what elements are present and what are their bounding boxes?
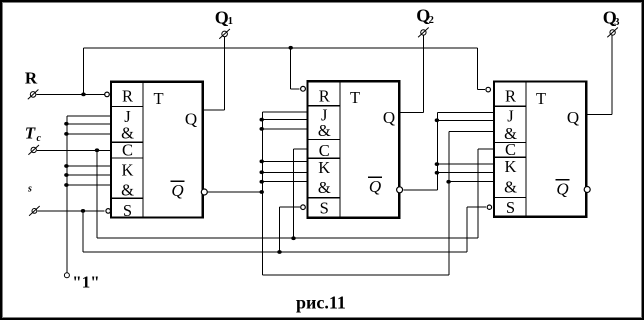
svg-text:Q: Q bbox=[383, 108, 395, 127]
svg-text:K: K bbox=[505, 157, 517, 176]
svg-text:T: T bbox=[536, 89, 546, 108]
svg-text:3: 3 bbox=[614, 17, 619, 28]
svg-text:T: T bbox=[350, 88, 360, 107]
svg-text:R: R bbox=[319, 86, 330, 105]
svg-text:&: & bbox=[318, 178, 331, 197]
svg-text:R: R bbox=[505, 86, 516, 105]
svg-text:S: S bbox=[123, 201, 132, 220]
svg-text:S: S bbox=[320, 199, 329, 218]
svg-text:&: & bbox=[121, 180, 134, 199]
svg-text:"1": "1" bbox=[72, 272, 99, 291]
svg-text:Q: Q bbox=[556, 180, 568, 199]
svg-text:J: J bbox=[507, 106, 514, 125]
svg-text:K: K bbox=[318, 158, 330, 177]
svg-text:T: T bbox=[153, 89, 163, 108]
svg-text:&: & bbox=[504, 178, 517, 197]
svg-text:Q: Q bbox=[567, 108, 579, 127]
svg-text:R: R bbox=[25, 69, 38, 88]
svg-text:рис.11: рис.11 bbox=[296, 293, 346, 313]
svg-text:s: s bbox=[27, 184, 32, 195]
svg-text:Q: Q bbox=[185, 110, 197, 129]
svg-text:Q: Q bbox=[215, 7, 229, 27]
svg-text:C: C bbox=[122, 141, 133, 160]
svg-text:c: c bbox=[36, 133, 41, 144]
svg-text:K: K bbox=[122, 160, 134, 179]
svg-text:2: 2 bbox=[429, 15, 434, 26]
svg-text:&: & bbox=[121, 123, 134, 142]
svg-text:&: & bbox=[318, 121, 331, 140]
svg-text:1: 1 bbox=[228, 16, 233, 27]
svg-text:Q: Q bbox=[171, 181, 183, 200]
svg-text:Q: Q bbox=[369, 177, 381, 196]
svg-text:S: S bbox=[506, 198, 515, 217]
svg-text:R: R bbox=[122, 86, 133, 105]
svg-text:T: T bbox=[25, 123, 36, 142]
